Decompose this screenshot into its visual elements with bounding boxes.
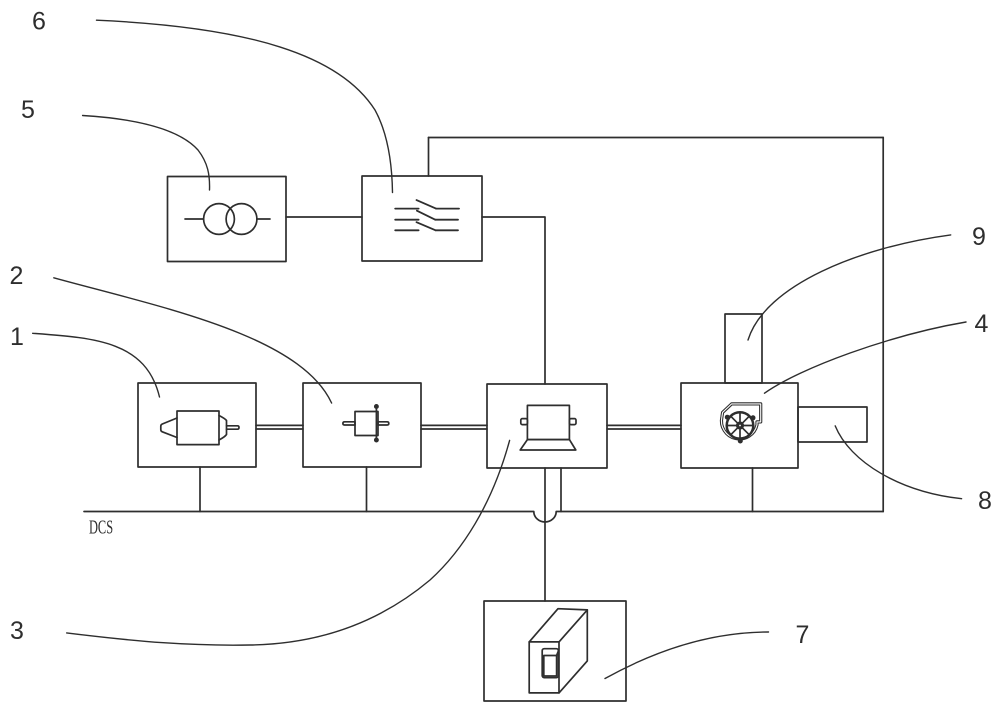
- wire box1 to bus: [199, 467, 201, 512]
- device 3d symbol: [529, 609, 587, 693]
- coupling symbol: [343, 405, 389, 442]
- leader 8: [835, 426, 961, 499]
- leader 5: [83, 116, 210, 191]
- wire filter output to converter: [482, 217, 545, 384]
- fan symbol: [721, 404, 760, 444]
- box 6 filter block: [362, 176, 482, 261]
- wire top feedback line: [429, 137, 884, 139]
- box 7: [484, 601, 626, 701]
- transformer symbol: [185, 204, 270, 235]
- svg-text:1: 1: [10, 323, 24, 351]
- box 5 transformer block: [168, 177, 287, 262]
- svg-text:5: 5: [21, 96, 35, 124]
- svg-text:6: 6: [32, 8, 46, 36]
- shaft coupling-converter: [421, 425, 487, 429]
- wire right feedback drop: [882, 138, 884, 512]
- leader 3: [67, 440, 510, 645]
- leader 2: [54, 278, 332, 403]
- box 3 converter block: [487, 384, 607, 468]
- wire box4 to bus: [752, 468, 754, 512]
- box 8: [798, 407, 867, 442]
- box 1 motor block: [138, 383, 256, 467]
- leader 7: [605, 632, 769, 679]
- leader 1: [33, 333, 160, 397]
- wire box2 to bus: [366, 467, 368, 512]
- svg-text:8: 8: [978, 487, 992, 515]
- laptop symbol: [520, 405, 576, 450]
- leader 6: [97, 20, 393, 192]
- leader 4: [765, 322, 967, 393]
- svg-text:2: 2: [10, 262, 24, 290]
- shaft converter-fan: [607, 425, 681, 429]
- wire transformer to filter: [286, 216, 362, 218]
- box 4 fan block: [681, 383, 798, 468]
- filter symbol: [395, 200, 459, 230]
- svg-text:3: 3: [10, 617, 24, 645]
- svg-text:4: 4: [975, 310, 989, 338]
- svg-text:DCS: DCS: [89, 515, 113, 538]
- box 9: [725, 314, 762, 383]
- wire filter top riser: [428, 138, 430, 177]
- box 2 coupling block: [303, 383, 421, 467]
- wire DCS bus with hop: [84, 512, 883, 523]
- shaft motor-coupling: [256, 425, 303, 429]
- leader 9: [748, 235, 951, 340]
- wire box3 to box7: [544, 468, 546, 601]
- motor symbol: [161, 411, 239, 445]
- svg-text:7: 7: [796, 621, 810, 649]
- wire box3 to bus: [560, 468, 562, 512]
- svg-text:9: 9: [972, 223, 986, 251]
